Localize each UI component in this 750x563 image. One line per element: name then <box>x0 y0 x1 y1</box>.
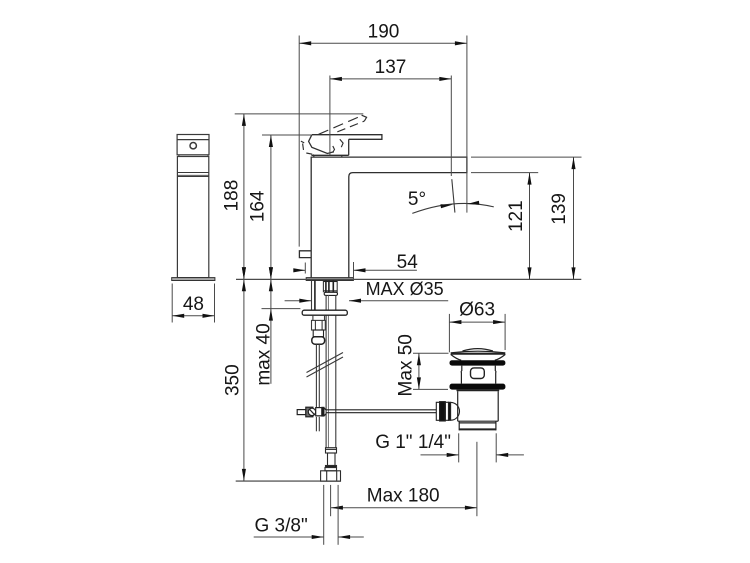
side view handle cap <box>177 135 209 155</box>
stud below washer <box>312 315 314 320</box>
washer plate <box>302 310 347 315</box>
collar tick <box>341 155 343 157</box>
side view body <box>177 157 208 278</box>
svg-text:164: 164 <box>248 190 269 222</box>
drain black band 2 <box>450 384 506 390</box>
svg-text:188: 188 <box>221 180 242 212</box>
pop-up lever assembly <box>297 407 436 417</box>
drain black band 1 <box>450 360 506 365</box>
hose bottom fitting G3/8 <box>321 448 341 482</box>
Ø63 dimension <box>449 314 505 352</box>
svg-text:139: 139 <box>549 193 570 225</box>
dimension 350 <box>243 279 245 481</box>
dashed raised handle <box>301 115 367 157</box>
dimension 48 <box>172 284 214 323</box>
5 degree arc <box>412 203 494 213</box>
pop-up rod <box>315 344 317 407</box>
drain body <box>458 391 499 430</box>
G 3/8 dimension <box>254 485 364 545</box>
faucet body L-outline <box>311 157 467 278</box>
hex nut <box>312 320 326 330</box>
svg-text:5°: 5° <box>408 189 426 210</box>
dimension max 40 <box>262 279 301 384</box>
svg-text:G 1" 1/4": G 1" 1/4" <box>375 432 451 453</box>
svg-text:Max 50: Max 50 <box>396 334 417 396</box>
dimension 190 <box>299 36 467 247</box>
lever step vertical <box>348 139 350 155</box>
side view neck <box>178 155 180 157</box>
supply hose <box>325 295 327 447</box>
5 degree tilted outlet axis line <box>452 179 455 212</box>
second nut <box>313 330 323 337</box>
G 1 1/4 dimension <box>421 433 524 462</box>
svg-text:190: 190 <box>368 22 400 43</box>
shank collar <box>324 292 337 295</box>
threaded shank outline <box>322 281 324 293</box>
dimension 137 <box>330 76 451 177</box>
side view base plate <box>172 278 215 281</box>
Max 50 dimension <box>413 353 449 389</box>
shank thread bars <box>325 281 327 293</box>
svg-text:48: 48 <box>183 294 204 315</box>
drain centerline <box>476 442 478 516</box>
drain cap <box>451 349 506 361</box>
svg-text:54: 54 <box>397 252 419 273</box>
left mounting stud <box>311 281 313 311</box>
svg-text:G 3/8": G 3/8" <box>254 515 307 536</box>
Max 180 dimension <box>331 507 477 509</box>
350 bottom extension line <box>236 480 341 482</box>
side view cap screw hole <box>190 143 196 149</box>
barrel coupler <box>312 337 325 345</box>
svg-text:MAX Ø35: MAX Ø35 <box>366 279 444 299</box>
front base plate <box>306 278 353 281</box>
svg-text:350: 350 <box>222 364 243 396</box>
handle knuckle <box>309 135 334 154</box>
svg-text:Ø63: Ø63 <box>459 300 495 321</box>
svg-text:max 40: max 40 <box>254 323 275 385</box>
svg-text:121: 121 <box>506 200 527 232</box>
break symbol <box>307 353 344 373</box>
svg-text:Max 180: Max 180 <box>367 485 440 506</box>
extra up-arrows under countertop (hourglass pairs) <box>242 279 246 291</box>
dimension 188 <box>235 114 364 279</box>
linkage rod to drain <box>326 409 436 411</box>
drain neck <box>461 366 496 384</box>
dimension 164 <box>262 135 312 279</box>
handle lever <box>312 135 382 140</box>
svg-text:137: 137 <box>375 57 407 78</box>
collar top line <box>311 154 348 156</box>
left small tab on body <box>299 251 311 258</box>
ball joint fitting <box>436 402 459 421</box>
